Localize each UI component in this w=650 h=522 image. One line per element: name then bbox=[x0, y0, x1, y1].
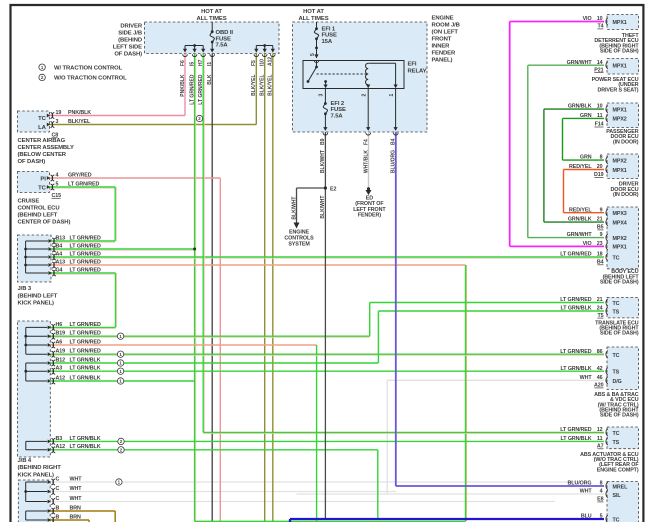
svg-text:LT GRN/RED: LT GRN/RED bbox=[560, 427, 591, 433]
svg-text:LT GRN/RED: LT GRN/RED bbox=[560, 252, 591, 258]
wire: LT GRN/RED J/B4 A6 down to bottom bus bbox=[50, 344, 316, 346]
svg-text:LT GRN/RED: LT GRN/RED bbox=[560, 297, 591, 303]
svg-text:A3: A3 bbox=[56, 366, 63, 372]
svg-text:RELAY: RELAY bbox=[408, 69, 427, 75]
svg-text:WHT: WHT bbox=[70, 486, 83, 492]
ECU box: ABS actuator ECU TC/TS bbox=[607, 427, 639, 449]
svg-text:VIO: VIO bbox=[583, 16, 592, 22]
svg-text:A13: A13 bbox=[56, 259, 66, 265]
wire: WHT/BLK from relay pin 2 to ground ED bbox=[368, 132, 370, 189]
svg-text:DRIVER: DRIVER bbox=[120, 24, 143, 30]
circled 1 on J/B4 row bbox=[117, 333, 123, 339]
svg-text:GRY/RED: GRY/RED bbox=[68, 173, 92, 179]
svg-text:LT GRN/BLK: LT GRN/BLK bbox=[70, 375, 101, 381]
svg-text:(BEHIND RIGHT: (BEHIND RIGHT bbox=[18, 465, 62, 471]
svg-text:LT GRN/RED: LT GRN/RED bbox=[68, 182, 99, 188]
junction block J/B 4 lower connector bbox=[18, 480, 50, 522]
svg-text:MPX4: MPX4 bbox=[613, 220, 627, 226]
svg-text:5: 5 bbox=[310, 53, 316, 56]
svg-text:TS: TS bbox=[613, 370, 620, 376]
svg-text:BRN: BRN bbox=[70, 514, 82, 520]
wire: GRN/BLK passenger door 10 to body MPX4 21 bbox=[544, 108, 604, 110]
svg-text:H7: H7 bbox=[198, 59, 204, 66]
svg-text:TC: TC bbox=[38, 116, 46, 122]
wire: BLU line to ECM TC 5 bbox=[290, 518, 604, 520]
wire: WHT C1 row from J/B4 lower bbox=[50, 481, 575, 483]
svg-text:LT GRN/RED: LT GRN/RED bbox=[70, 331, 101, 337]
svg-text:BLK/YEL: BLK/YEL bbox=[251, 75, 257, 96]
svg-text:TC: TC bbox=[613, 353, 620, 359]
svg-text:INNER: INNER bbox=[432, 44, 451, 50]
svg-text:SYSTEM: SYSTEM bbox=[288, 241, 310, 247]
svg-text:A4: A4 bbox=[56, 251, 63, 257]
svg-text:SIDE OF DASH): SIDE OF DASH) bbox=[600, 280, 639, 286]
svg-text:FUSE: FUSE bbox=[322, 33, 337, 39]
svg-text:J/B 3: J/B 3 bbox=[18, 286, 32, 292]
wire: LT GRN/BLK J/B4 A12 row to I5 bus bbox=[50, 380, 194, 382]
EFI relay switch bbox=[316, 61, 318, 68]
svg-text:BLK/WHT: BLK/WHT bbox=[291, 197, 297, 220]
svg-text:W/ TRACTION CONTROL: W/ TRACTION CONTROL bbox=[54, 66, 123, 72]
svg-text:4: 4 bbox=[600, 489, 603, 495]
svg-text:SIDE OF DASH): SIDE OF DASH) bbox=[600, 48, 639, 54]
svg-text:DRIVER S SEAT): DRIVER S SEAT) bbox=[598, 87, 639, 93]
svg-text:PNK/BLK: PNK/BLK bbox=[68, 110, 91, 116]
svg-text:MPX1: MPX1 bbox=[613, 245, 627, 251]
svg-text:A19: A19 bbox=[56, 349, 66, 355]
svg-text:LEFT SIDE: LEFT SIDE bbox=[113, 45, 142, 51]
connector: center airbag center assembly TC/LA bbox=[18, 111, 50, 132]
svg-text:FENDER: FENDER bbox=[432, 51, 456, 57]
svg-text:SIL: SIL bbox=[613, 493, 622, 499]
svg-text:20: 20 bbox=[597, 164, 603, 170]
svg-text:I5: I5 bbox=[189, 62, 195, 66]
svg-text:TS: TS bbox=[613, 440, 620, 446]
svg-text:LT GRN/RED: LT GRN/RED bbox=[189, 74, 195, 105]
svg-text:ENGINE COMPT): ENGINE COMPT) bbox=[597, 467, 639, 473]
junction block J/B 3 bbox=[18, 235, 52, 282]
ground ED bbox=[367, 187, 370, 190]
wire: GRY/RED from cruise pin 4, down right side bbox=[49, 177, 220, 179]
svg-text:LT GRN/RED: LT GRN/RED bbox=[70, 235, 101, 241]
svg-text:11: 11 bbox=[597, 436, 603, 442]
svg-text:LT GRN/RED: LT GRN/RED bbox=[70, 339, 101, 345]
svg-text:SIDE J/B: SIDE J/B bbox=[118, 31, 142, 37]
svg-text:7.5A: 7.5A bbox=[331, 113, 344, 119]
svg-text:(BEHIND LEFT: (BEHIND LEFT bbox=[18, 213, 58, 219]
svg-text:8: 8 bbox=[600, 481, 603, 487]
svg-text:(ON LEFT: (ON LEFT bbox=[432, 30, 459, 36]
wire: BLK I1 vertical bbox=[211, 54, 213, 522]
svg-text:FUSE: FUSE bbox=[216, 36, 231, 42]
wire: LT GRN/BLK J/B4 B3 row to ABS actuator TS 11 bbox=[50, 440, 604, 442]
svg-text:GRN: GRN bbox=[580, 155, 592, 161]
svg-text:EFI 1: EFI 1 bbox=[322, 26, 336, 32]
svg-text:ALL TIMES: ALL TIMES bbox=[298, 16, 328, 22]
svg-text:21: 21 bbox=[597, 297, 603, 303]
ECU box: passenger door ECU MPX1/MPX2 bbox=[607, 103, 639, 128]
svg-text:LT GRN/RED: LT GRN/RED bbox=[70, 322, 101, 328]
svg-text:HOT AT: HOT AT bbox=[303, 9, 324, 15]
svg-text:H6: H6 bbox=[56, 322, 63, 328]
svg-text:F5: F5 bbox=[251, 60, 257, 66]
connector cups at driver J/B bottom edge bbox=[183, 54, 188, 56]
wire: LT GRN/RED J/B3 A13 row bbox=[51, 264, 466, 266]
svg-text:I10: I10 bbox=[260, 59, 266, 66]
svg-text:C: C bbox=[56, 486, 60, 492]
svg-text:C: C bbox=[56, 476, 60, 482]
svg-text:SIDE OF DASH): SIDE OF DASH) bbox=[600, 331, 639, 337]
driver J/B internal bus right group bbox=[256, 45, 273, 47]
svg-text:HOT AT: HOT AT bbox=[201, 9, 222, 15]
svg-text:WHT: WHT bbox=[580, 489, 593, 495]
wire: BLU/ORG from relay pin 1 to ECM MREL 8 bbox=[395, 132, 397, 486]
svg-text:TC: TC bbox=[613, 255, 620, 261]
svg-text:G4: G4 bbox=[56, 267, 63, 273]
svg-text:23: 23 bbox=[597, 241, 603, 247]
OBD II fuse 7.5A bbox=[211, 22, 213, 32]
junction: I5 bus to B4 row bbox=[193, 248, 196, 251]
ECU pin brackets bbox=[606, 18, 608, 25]
svg-text:TS: TS bbox=[613, 310, 620, 316]
svg-text:I1: I1 bbox=[207, 62, 213, 66]
svg-text:A12: A12 bbox=[56, 375, 66, 381]
svg-text:CENTER ASSEMBLY: CENTER ASSEMBLY bbox=[18, 145, 74, 151]
svg-text:(BEHIND LEFT: (BEHIND LEFT bbox=[18, 293, 58, 299]
circled 1 on J/B4 row bbox=[117, 368, 123, 374]
pins of TC/LA connector bbox=[47, 114, 50, 118]
svg-text:FENDER): FENDER) bbox=[358, 213, 381, 219]
svg-text:86: 86 bbox=[597, 349, 603, 355]
svg-text:LT GRN/RED: LT GRN/RED bbox=[70, 267, 101, 273]
ECU box: driver door ECU MPX2/MPX1 bbox=[607, 154, 639, 179]
wire: BRN row 2 from J/B4 lower bbox=[50, 519, 89, 521]
wire: BLK/YEL from J/B pin F5 to airbag pin 3 bbox=[255, 54, 257, 125]
svg-text:BLK/WHT: BLK/WHT bbox=[320, 196, 326, 219]
wire: LT GRN/RED J/B4 A19 row to ABS TRAC TC 86 bbox=[50, 354, 604, 356]
svg-text:LT GRN/RED: LT GRN/RED bbox=[70, 251, 101, 257]
svg-text:GRN/BLK: GRN/BLK bbox=[568, 104, 592, 110]
svg-text:B19: B19 bbox=[56, 331, 66, 337]
svg-text:1: 1 bbox=[389, 94, 395, 97]
svg-text:24: 24 bbox=[597, 306, 603, 312]
svg-text:10: 10 bbox=[597, 104, 603, 110]
EFI 2 fuse 7.5A bbox=[324, 89, 326, 104]
svg-text:BLK/YEL: BLK/YEL bbox=[268, 75, 274, 96]
svg-text:12: 12 bbox=[597, 427, 603, 433]
svg-text:RED/YEL: RED/YEL bbox=[569, 207, 592, 213]
circled 1 on J/B4 row bbox=[117, 351, 123, 357]
wire: BLK/WHT from relay pin 3 down, node E2 bbox=[324, 132, 326, 519]
svg-text:19: 19 bbox=[56, 110, 62, 116]
svg-text:PANEL): PANEL) bbox=[432, 58, 453, 64]
ECU box: body ECU bbox=[607, 207, 639, 269]
svg-text:FUSE: FUSE bbox=[331, 107, 346, 113]
svg-text:ENGINE: ENGINE bbox=[432, 16, 454, 22]
svg-text:OBD II: OBD II bbox=[216, 30, 234, 36]
svg-text:F6: F6 bbox=[180, 60, 186, 66]
svg-text:KICK PANEL): KICK PANEL) bbox=[18, 301, 55, 307]
wire: PNK/BLK from J/B pin F6 to airbag pin 19 bbox=[184, 54, 186, 116]
driver J/B internal bus left group bbox=[185, 45, 203, 47]
svg-text:RED/YEL: RED/YEL bbox=[569, 164, 592, 170]
svg-text:BRN: BRN bbox=[70, 505, 82, 511]
wire: WHT SIL line to pin 4 bbox=[297, 493, 605, 495]
svg-text:TC: TC bbox=[38, 186, 46, 192]
legend circled 1 bbox=[39, 64, 45, 70]
wire: BLK/YEL A12 vertical bbox=[272, 54, 274, 522]
ECU box: translate ECU TC/TS bbox=[607, 297, 639, 318]
svg-text:WHT: WHT bbox=[580, 375, 593, 381]
svg-text:BLU/ORG: BLU/ORG bbox=[391, 150, 397, 173]
wire: RED/YEL driver door 20 to body MPX3 9 bbox=[564, 169, 605, 171]
svg-text:5: 5 bbox=[56, 182, 59, 188]
svg-text:TC: TC bbox=[613, 301, 620, 307]
wire: GRN passenger door 11 to driver door MPX2 8 bbox=[563, 117, 605, 119]
svg-text:9: 9 bbox=[600, 207, 603, 213]
J/B4 lower connector bus and pins bbox=[25, 482, 27, 502]
svg-text:A6: A6 bbox=[56, 339, 63, 345]
wire: LT GRN/BLK J/B4 A3 row to ABS TRAC TS 42 bbox=[50, 370, 604, 372]
svg-text:LT GRN/RED: LT GRN/RED bbox=[198, 74, 204, 105]
arrow to engine controls system bbox=[294, 223, 300, 229]
svg-text:11: 11 bbox=[597, 113, 603, 119]
wire: LT GRN/RED I5 vertical bus bbox=[195, 54, 197, 522]
circled 2 on B3 row bbox=[118, 438, 124, 444]
svg-text:LT GRN/RED: LT GRN/RED bbox=[70, 243, 101, 249]
svg-text:LT GRN/RED: LT GRN/RED bbox=[70, 349, 101, 355]
svg-text:14: 14 bbox=[597, 60, 603, 66]
svg-text:46: 46 bbox=[597, 375, 603, 381]
svg-text:MPX1: MPX1 bbox=[613, 64, 627, 70]
svg-text:B3: B3 bbox=[56, 436, 63, 442]
svg-text:ROOM J/B: ROOM J/B bbox=[432, 23, 460, 29]
ECU box: ABS-BA-TRAC-VDC ECU bbox=[607, 347, 639, 389]
svg-text:LT GRN/RED: LT GRN/RED bbox=[70, 259, 101, 265]
EFI relay coil bbox=[366, 63, 369, 85]
svg-text:W/O TRACTION CONTROL: W/O TRACTION CONTROL bbox=[54, 76, 127, 82]
svg-text:MPX3: MPX3 bbox=[613, 211, 627, 217]
wire: LT GRN/RED J/B3 B4 row to I5 bbox=[51, 249, 195, 251]
svg-text:2: 2 bbox=[362, 94, 368, 97]
svg-text:BLK/YEL: BLK/YEL bbox=[260, 75, 266, 96]
svg-text:WHT: WHT bbox=[70, 496, 83, 502]
svg-text:MPX2: MPX2 bbox=[613, 158, 627, 164]
svg-text:EFI 2: EFI 2 bbox=[331, 101, 345, 107]
svg-text:7.5A: 7.5A bbox=[216, 43, 229, 49]
svg-text:B: B bbox=[56, 505, 60, 511]
connector: cruise control ECU PI/TC bbox=[18, 172, 50, 193]
svg-text:MPX1: MPX1 bbox=[613, 107, 627, 113]
wire: LT GRN/RED J/B3 G4 to J/B4 H6 bbox=[51, 273, 116, 275]
svg-text:(BELOW CENTER: (BELOW CENTER bbox=[18, 152, 67, 158]
ECU box: engine control module MREL/SIL/TC bbox=[607, 482, 639, 522]
svg-text:C: C bbox=[56, 496, 60, 502]
junction block J/B 4 upper bbox=[18, 321, 51, 457]
svg-text:GRN/BLK: GRN/BLK bbox=[568, 217, 592, 223]
svg-text:10: 10 bbox=[597, 16, 603, 22]
svg-text:B9: B9 bbox=[320, 138, 326, 145]
svg-text:LT GRN/BLK: LT GRN/BLK bbox=[70, 357, 101, 363]
ECU box: theft deterrent ECU MPX1 bbox=[607, 15, 639, 30]
circled 1 on J/B4 row bbox=[117, 360, 123, 366]
wire: BLK/WHT branch to engine controls system bbox=[297, 187, 326, 189]
EFI 1 fuse 15A bbox=[316, 22, 318, 29]
svg-text:GRN/WHT: GRN/WHT bbox=[567, 60, 593, 66]
EFI relay box bbox=[303, 61, 404, 89]
J/B4 internal bus and pins bbox=[25, 327, 27, 354]
circled 2 on H7 wire bbox=[196, 115, 202, 121]
svg-text:BLK/WHT: BLK/WHT bbox=[320, 150, 326, 173]
wire: LT GRN/RED cruise pin 5 to J/B3 B13 bbox=[49, 187, 115, 189]
svg-text:(IN DOOR): (IN DOOR) bbox=[613, 192, 639, 198]
svg-text:FRONT: FRONT bbox=[432, 37, 452, 43]
svg-text:CENTER OF DASH): CENTER OF DASH) bbox=[18, 220, 71, 226]
svg-text:ALL TIMES: ALL TIMES bbox=[196, 16, 226, 22]
svg-text:MPX2: MPX2 bbox=[613, 236, 627, 242]
junction block: engine room J/B (dashed box) bbox=[293, 22, 428, 132]
wire: GRN/WHT power seat 14 to body MPX2 9 bbox=[528, 64, 604, 66]
svg-text:D/G: D/G bbox=[613, 379, 622, 385]
svg-text:LA: LA bbox=[38, 125, 46, 131]
wire: WHT C3 row from J/B4 lower bbox=[50, 501, 555, 503]
J/B3 internal bus and pins bbox=[25, 241, 27, 273]
svg-text:CENTER AIRBAG: CENTER AIRBAG bbox=[18, 138, 66, 144]
svg-text:LT GRN/BLK: LT GRN/BLK bbox=[561, 306, 592, 312]
svg-text:LT GRN/BLK: LT GRN/BLK bbox=[70, 366, 101, 372]
svg-text:LT GRN/BLK: LT GRN/BLK bbox=[561, 366, 592, 372]
svg-text:CRUISE: CRUISE bbox=[18, 199, 40, 205]
svg-text:PNK/BLK: PNK/BLK bbox=[180, 74, 186, 97]
wire: WHT C2 row from J/B4 lower bbox=[50, 491, 396, 493]
svg-text:F4: F4 bbox=[363, 139, 369, 145]
svg-text:(IN DOOR): (IN DOOR) bbox=[613, 139, 639, 145]
svg-text:MREL: MREL bbox=[613, 484, 629, 490]
svg-text:3: 3 bbox=[319, 94, 325, 97]
wire: LT GRN/RED J/B3 A4 row to body ECU TC 18 bbox=[51, 257, 604, 259]
svg-text:BLU: BLU bbox=[581, 514, 592, 520]
svg-text:LT GRN/BLK: LT GRN/BLK bbox=[561, 436, 592, 442]
wire: LT GRN/RED H7 vertical to ABS actuator TC 12 bbox=[203, 54, 205, 433]
svg-text:PI: PI bbox=[40, 177, 46, 183]
svg-text:5: 5 bbox=[600, 514, 603, 520]
junction block: driver side J/B (dashed box) bbox=[145, 22, 280, 54]
svg-text:CONTROL ECU: CONTROL ECU bbox=[18, 206, 60, 212]
connector cups at engine J/B bottom edge bbox=[323, 133, 328, 135]
svg-text:MPX1: MPX1 bbox=[613, 168, 627, 174]
svg-text:MPX2: MPX2 bbox=[613, 117, 627, 123]
pins of cruise connector bbox=[47, 176, 50, 180]
circled 1 on J/B4 row bbox=[117, 378, 123, 384]
svg-text:3: 3 bbox=[56, 119, 59, 125]
ECU box: power seat ECU MPX1 bbox=[607, 59, 639, 75]
svg-text:B13: B13 bbox=[56, 235, 66, 241]
circled 2 on A12 lower row bbox=[118, 447, 124, 453]
wire: BRN row 1 from J/B4 lower bbox=[50, 510, 115, 512]
svg-text:B4: B4 bbox=[56, 243, 63, 249]
svg-text:OF DASH): OF DASH) bbox=[18, 159, 46, 165]
svg-text:B4: B4 bbox=[391, 138, 397, 145]
svg-text:LT GRN/RED: LT GRN/RED bbox=[560, 349, 591, 355]
svg-text:A12: A12 bbox=[268, 57, 274, 66]
svg-text:4: 4 bbox=[56, 173, 59, 179]
svg-text:BLK: BLK bbox=[207, 74, 213, 85]
svg-text:E2: E2 bbox=[330, 187, 336, 193]
svg-text:KICK PANEL): KICK PANEL) bbox=[18, 472, 55, 478]
svg-text:B: B bbox=[56, 514, 60, 520]
svg-text:GRN/WHT: GRN/WHT bbox=[567, 232, 593, 238]
svg-text:TC: TC bbox=[613, 518, 620, 522]
svg-text:SIDE OF DASH): SIDE OF DASH) bbox=[600, 413, 639, 419]
circled 1 on C WHT row bbox=[116, 479, 122, 485]
wire: LT GRN/RED J/B4 B19 to translate TC 21 bbox=[50, 336, 369, 338]
svg-text:A12: A12 bbox=[56, 444, 66, 450]
svg-text:9: 9 bbox=[600, 232, 603, 238]
svg-text:LT GRN/BLK: LT GRN/BLK bbox=[70, 444, 101, 450]
svg-text:OF DASH): OF DASH) bbox=[114, 52, 142, 58]
svg-text:MPX1: MPX1 bbox=[613, 20, 627, 26]
svg-text:42: 42 bbox=[597, 366, 603, 372]
svg-text:18: 18 bbox=[597, 252, 603, 258]
svg-text:B12: B12 bbox=[56, 357, 66, 363]
svg-text:TC: TC bbox=[613, 431, 620, 437]
wire: BLK/YEL I10 vertical bbox=[264, 54, 266, 522]
wire: LT GRN/BLK J/B4 B12 to translate TS 24 bbox=[50, 362, 378, 364]
svg-text:15A: 15A bbox=[322, 39, 333, 45]
svg-text:21: 21 bbox=[597, 217, 603, 223]
wire: VIO theft deterrent 10 to body MPX1 23 bbox=[510, 21, 604, 23]
svg-text:(BEHIND: (BEHIND bbox=[118, 38, 142, 44]
svg-text:BLK/YEL: BLK/YEL bbox=[68, 119, 91, 125]
svg-text:VIO: VIO bbox=[583, 241, 592, 247]
svg-text:8: 8 bbox=[600, 155, 603, 161]
node E2 on BLK/WHT bbox=[324, 186, 327, 189]
svg-text:WHT/BLK: WHT/BLK bbox=[363, 150, 369, 173]
legend circled 2 bbox=[39, 74, 45, 80]
wire: LT GRN/RED A13 vertical to bottom bus bbox=[466, 265, 468, 521]
svg-text:LT GRN/BLK: LT GRN/BLK bbox=[70, 436, 101, 442]
svg-text:EFI: EFI bbox=[408, 62, 417, 68]
svg-text:BLU/ORG: BLU/ORG bbox=[568, 481, 592, 487]
svg-text:GRN: GRN bbox=[580, 113, 592, 119]
wire: LT GRN/BLK J/B4 A12 lower row down bbox=[50, 449, 378, 451]
svg-text:J/B 4: J/B 4 bbox=[18, 458, 32, 464]
wire: WHT stub from D/G pin 46 down to SIL bbox=[387, 379, 604, 381]
svg-text:WHT: WHT bbox=[70, 476, 83, 482]
